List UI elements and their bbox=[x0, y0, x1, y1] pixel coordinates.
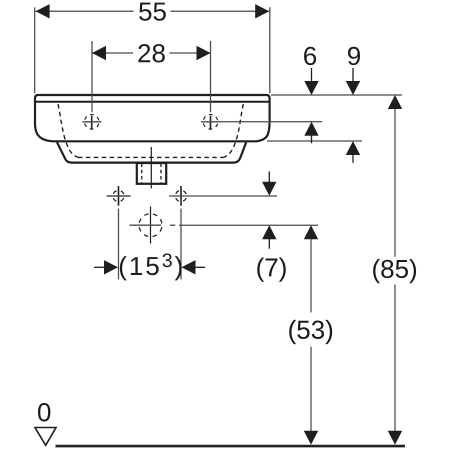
tap hole right: dashed circle bbox=[203, 115, 218, 130]
dimension (15 3): label bbox=[120, 253, 182, 280]
washbasin body outline bbox=[35, 95, 270, 141]
dimension (53): bottom arrow (down) bbox=[304, 431, 318, 445]
washbasin rim front edge line bbox=[35, 101, 269, 103]
dimension 28: extension line left bbox=[91, 41, 93, 112]
dimension 9: lower arrow (up) bbox=[346, 141, 360, 155]
waste outlet vertical centerline bbox=[150, 207, 152, 244]
dimension 55: arrow left bbox=[36, 4, 50, 18]
dimension (85): bottom arrow (down) bbox=[388, 431, 402, 445]
floor line bbox=[56, 445, 406, 448]
dimension (15 3): left arrow (pointing right) bbox=[94, 266, 105, 268]
dimension 28: dimension line bbox=[93, 52, 134, 54]
inner bowl hidden contour left (dashed) bbox=[58, 104, 78, 157]
dimension (85): top arrow (up) bbox=[388, 95, 402, 109]
reference line at tap hole level (right side) bbox=[220, 121, 322, 123]
dimension (53): vertical line bbox=[310, 239, 312, 312]
dimension 6: upper arrow (down) bbox=[311, 68, 313, 83]
dimension 55: label bbox=[139, 3, 166, 21]
inner bowl hidden contour right (dashed) bbox=[224, 104, 244, 157]
tap hole left: dashed circle bbox=[84, 115, 99, 130]
dimension (7): label bbox=[257, 258, 286, 282]
dimension 9: upper arrow (down) bbox=[352, 68, 354, 83]
drain pipe hidden line right (dashed) bbox=[160, 164, 162, 184]
dimension (15 3): extension line right bbox=[180, 209, 182, 280]
reference line at fixing hole level bbox=[169, 195, 277, 197]
reference line at waste outlet level (centerline + extension) bbox=[130, 224, 162, 226]
dimension 6: lower arrow (up) bbox=[304, 122, 318, 136]
dimension (85): vertical line bbox=[394, 109, 396, 257]
fixing hole right: dashed circle bbox=[175, 190, 186, 201]
dimension (15 3): right arrow (pointing left) bbox=[182, 260, 196, 274]
dimension (15 3): extension line left bbox=[118, 209, 120, 280]
fixing hole right: cross bbox=[180, 186, 182, 206]
fixing hole left: dashed circle bbox=[113, 190, 124, 201]
dimension 9: label bbox=[348, 47, 360, 65]
washbasin lower bowl outline bbox=[57, 142, 246, 162]
fixing hole left: cross bbox=[118, 186, 120, 206]
dimension 6: label bbox=[304, 47, 316, 65]
dimension 28: label bbox=[138, 44, 164, 62]
dimension (7): upper arrow (down) bbox=[268, 171, 270, 183]
drain pipe hidden line left (dashed) bbox=[141, 164, 143, 184]
dimension 28: arrow right bbox=[197, 46, 211, 60]
dimension (53): label bbox=[289, 320, 332, 344]
drain tailpiece rectangle bbox=[137, 163, 166, 184]
dimension 55: extension line left bbox=[34, 7, 36, 93]
tap hole right: centerline cross bbox=[210, 116, 212, 129]
dimension (85): label bbox=[373, 259, 416, 283]
waste outlet dashed circle bbox=[139, 214, 162, 237]
dimension 28: arrow left bbox=[92, 46, 106, 60]
datum level 0: label bbox=[38, 403, 50, 421]
reference line at body bottom level (right side) bbox=[267, 140, 362, 142]
dimension (7): lower arrow (up) bbox=[262, 225, 276, 239]
dimension 55: extension line right bbox=[269, 7, 271, 93]
inner bowl hidden contour bottom (dashed) bbox=[78, 156, 224, 158]
dimension (53): top arrow (up) bbox=[304, 225, 318, 239]
dimension 55: arrow right bbox=[255, 4, 269, 18]
tap hole left: centerline cross bbox=[91, 116, 93, 129]
dimension 28: extension line right bbox=[210, 41, 212, 112]
reference line at basin top (right side) bbox=[271, 94, 402, 96]
dimension 55: dimension line bbox=[36, 10, 134, 12]
datum level 0: triangle symbol bbox=[35, 428, 56, 446]
drain centerline vertical bbox=[150, 147, 152, 189]
